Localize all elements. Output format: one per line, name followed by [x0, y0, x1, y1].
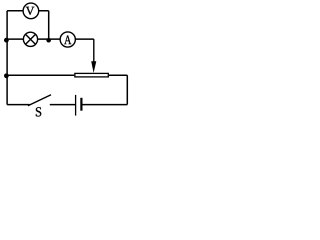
voltmeter V	[23, 3, 39, 19]
voltmeter label V	[26, 7, 35, 15]
wire lamp to ammeter	[38, 38, 61, 40]
wire rheostat right	[109, 74, 127, 76]
slider arrowhead	[91, 61, 96, 73]
wire battery right	[83, 104, 128, 106]
wire left vertical	[6, 11, 8, 105]
wire right vertical	[126, 75, 128, 104]
wire rheostat left	[7, 74, 74, 76]
lamp L cross	[25, 34, 35, 44]
wire top horizontal to voltmeter	[7, 10, 23, 12]
battery positive plate	[75, 95, 77, 116]
battery negative plate	[80, 98, 82, 111]
switch label S	[36, 107, 41, 116]
junction dot rheostat row left	[4, 73, 9, 78]
wire ammeter right	[75, 38, 94, 40]
wire bottom left to switch	[7, 104, 30, 106]
lamp L circle	[23, 32, 37, 46]
switch S blade	[28, 95, 51, 106]
ammeter A	[60, 32, 75, 47]
wire voltmeter right	[39, 10, 49, 12]
junction dot voltmeter branch	[46, 38, 51, 43]
rheostat R box	[75, 73, 108, 77]
wire voltmeter branch vertical	[48, 11, 50, 40]
wire switch to battery	[50, 104, 75, 106]
ammeter label A	[64, 35, 71, 44]
wire slider vertical	[93, 39, 95, 62]
junction dot lamp row left	[4, 38, 9, 43]
wire lamp row left	[7, 38, 23, 40]
